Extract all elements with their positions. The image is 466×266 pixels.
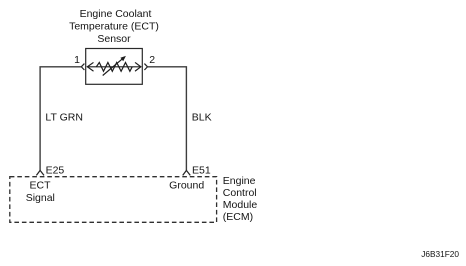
svg-text:1: 1 <box>74 54 80 66</box>
variable-resistance diagonal arrow <box>103 56 126 76</box>
pin 1 connector chevron <box>81 64 84 70</box>
thermistor zigzag resistor element <box>96 63 132 72</box>
ECM dashed box <box>10 177 217 223</box>
svg-text:Engine Coolant: Engine Coolant <box>80 8 152 20</box>
Engine Control Module (ECM) label <box>223 175 258 223</box>
svg-text:Temperature (ECT): Temperature (ECT) <box>69 21 159 33</box>
E51 terminal arrowhead <box>183 170 191 175</box>
svg-text:J6B31F20: J6B31F20 <box>421 249 459 259</box>
sensor box (ECT sensor outline) <box>86 49 143 85</box>
pin 2 connector chevron <box>144 64 147 70</box>
svg-text:LT GRN: LT GRN <box>45 112 83 124</box>
svg-text:Sensor: Sensor <box>97 33 131 45</box>
svg-text:BLK: BLK <box>192 112 212 124</box>
svg-text:Control: Control <box>223 187 257 199</box>
svg-text:Signal: Signal <box>26 192 55 204</box>
svg-text:Module: Module <box>223 199 258 211</box>
svg-text:(ECM): (ECM) <box>223 211 253 223</box>
wire: pin2 horizontal then down to E51 <box>148 67 187 171</box>
svg-text:E51: E51 <box>192 164 211 176</box>
ECT Signal label <box>26 180 55 204</box>
svg-text:Ground: Ground <box>169 179 204 191</box>
thermistor double-headed arrow (horizontal) <box>87 63 140 71</box>
svg-text:Engine: Engine <box>223 175 256 187</box>
title: Engine Coolant Temperature (ECT) Sensor <box>69 8 159 45</box>
svg-text:2: 2 <box>149 54 155 66</box>
E25 terminal arrowhead <box>36 170 44 175</box>
wire: pin1 horizontal then down to E25 <box>40 67 81 171</box>
svg-text:ECT: ECT <box>30 180 52 192</box>
svg-text:E25: E25 <box>46 164 65 176</box>
